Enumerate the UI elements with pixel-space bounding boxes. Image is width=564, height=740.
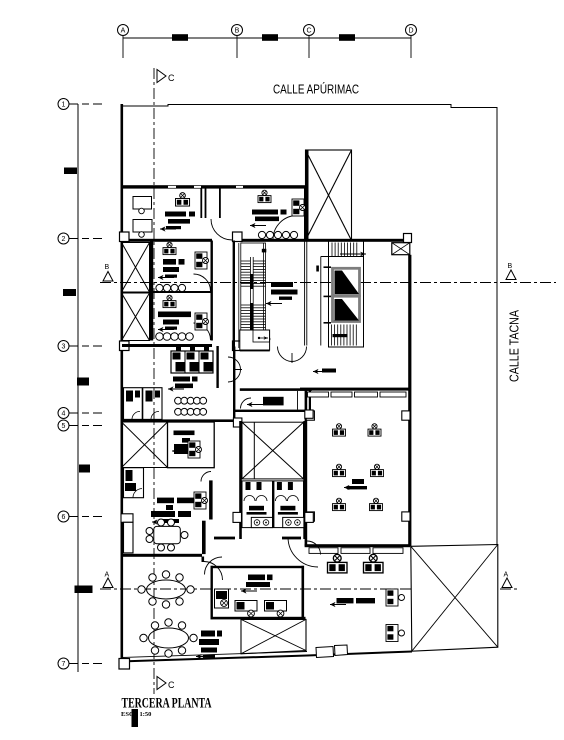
terrace bars [201,631,215,637]
section line A horizontal [100,588,520,590]
svg-text:C: C [168,680,175,690]
double door squiggle left [228,357,242,382]
planters bottom [316,647,334,658]
printer glyph [215,589,229,608]
row2 office1 [163,242,176,254]
grid bubble A [118,25,129,36]
outer property line top and right [121,105,497,547]
grid bubble 3 [69,345,103,347]
oval table 2 [149,628,189,648]
svg-text:2: 2 [62,236,66,243]
outer wall left [121,104,124,662]
row5 bars [157,498,174,504]
svg-text:A: A [504,572,509,579]
wall y=555.5 conference bottom [122,554,202,557]
wall x=211 row2 offices right [211,241,213,341]
svg-text:1: 1 [62,102,66,109]
big room label bar [352,479,364,484]
column X box right [392,243,410,255]
svg-text:4: 4 [62,411,66,418]
wall y=345 row3 top [122,344,212,347]
elevator side ticks [324,266,332,268]
grid bubble B [232,25,243,36]
svg-text:1:50: 1:50 [140,711,152,718]
shaft top with X [306,150,352,241]
svg-text:5: 5 [62,423,66,430]
lobby text bars row2 [271,282,293,287]
elevator car 2 [333,296,360,321]
row1 office1 bars [165,212,186,217]
row1 office2 workstation [258,190,271,202]
staircase left [239,243,266,348]
stair arrow upper right [340,253,366,255]
bottom room workstations [328,554,348,573]
row1 office2 bars [252,210,278,215]
elevator car 1 [333,268,360,295]
svg-text:7: 7 [62,661,66,668]
row1 office2 chair row [258,231,265,238]
elevator hatch bottom [331,325,333,346]
big room workstations [333,424,346,436]
section line B horizontal [100,282,556,284]
svg-text:3: 3 [62,344,66,351]
section marker A right [502,578,512,588]
row1 office2 side desk [292,199,306,216]
row3 bars [173,377,190,382]
toilets columns [233,512,242,522]
left dimension line [77,104,79,672]
grid bubble C [304,25,315,36]
section marker C top [157,70,166,83]
office right of shaft row4 [168,422,215,468]
corner box bottom left [119,659,130,670]
svg-text:B: B [235,28,240,35]
left shaft pair with X [122,243,150,341]
big room wall columns [306,411,314,420]
svg-text:D: D [408,28,413,35]
X box bottom centre [241,619,306,653]
svg-text:CALLE APÚRIMAC: CALLE APÚRIMAC [273,82,359,97]
column boxes row2 [120,232,130,242]
toilets pair [242,481,304,528]
double door squiggle right [278,347,307,364]
conference small table [154,526,181,543]
wall right main x=409 [408,255,411,546]
svg-text:A: A [121,28,126,35]
outer wall bottom slanted [121,652,412,662]
row1 office walls [200,188,202,218]
section marker B left [103,272,113,282]
svg-text:A: A [105,572,110,579]
wall y=240 row2 top [122,239,212,242]
wall row1 top y=186 [122,185,306,188]
elevator hatch top [331,243,333,257]
wall x=233 corridor right [233,241,235,347]
grid bubble 5 [69,425,103,427]
wall x=151 row2 [150,241,153,341]
svg-text:B: B [508,263,513,270]
left toilets row3 [124,388,163,420]
lobby corridor walls [304,242,306,346]
lobby curve arcs [205,557,223,575]
conference room small walls [121,514,133,523]
section marker A left [103,578,113,588]
grid bubble 6 [69,516,103,518]
shaft X left row4 [122,422,168,468]
elevator shaft [329,241,364,348]
corridor wall x=217.5 row3 [216,346,218,388]
toilets lower walls [214,537,235,540]
row2 office1 door arc [194,274,211,291]
svg-text:C: C [168,73,175,83]
hall arrow [322,369,336,373]
svg-text:B: B [105,264,110,271]
top dimension text blocks [172,34,188,41]
lobby arrow row2 [266,301,282,306]
section marker C bottom [157,677,166,690]
row2 office2 [163,295,176,307]
office room walls (bottom centre-left) [211,566,305,568]
row5 computer desk [194,492,208,509]
small room at corridor (239-270, 330-350) [240,330,270,350]
centre shaft X [242,422,304,479]
room below lobby [240,388,312,391]
row1 office1 workstation [176,193,190,206]
section line C vertical [153,68,155,694]
section marker B right [506,270,516,280]
svg-text:6: 6 [62,514,66,521]
row3 chair rows [175,397,182,404]
top dimension line [123,36,411,58]
grid bubble 4 [69,412,103,414]
grid bubble 2 [69,238,103,240]
svg-text:CALLE TACNA: CALLE TACNA [508,309,522,382]
grid bubble 7 [69,663,103,665]
large X box bottom right [411,545,498,652]
bottom room bars [337,598,354,603]
office row2 divider y=292 [153,291,211,293]
row3 workstation cluster [171,351,213,373]
small toilet left row5 [124,468,144,498]
svg-text:C: C [306,28,311,35]
bottom room computer desks [386,589,405,606]
office bars [248,575,265,581]
centre shaft walls [239,421,242,539]
grid bubble D [406,25,417,36]
office desks [235,601,257,612]
left dimension text blocks [64,168,77,175]
big room top wall with windows [300,388,409,391]
big room left wall [305,391,308,546]
row1 desk rects left [133,197,152,210]
big room bottom wall with windows [305,544,411,547]
grid bubble 1 [69,103,103,105]
wall y=420.5 [122,419,234,422]
oval table 1 [147,580,186,599]
